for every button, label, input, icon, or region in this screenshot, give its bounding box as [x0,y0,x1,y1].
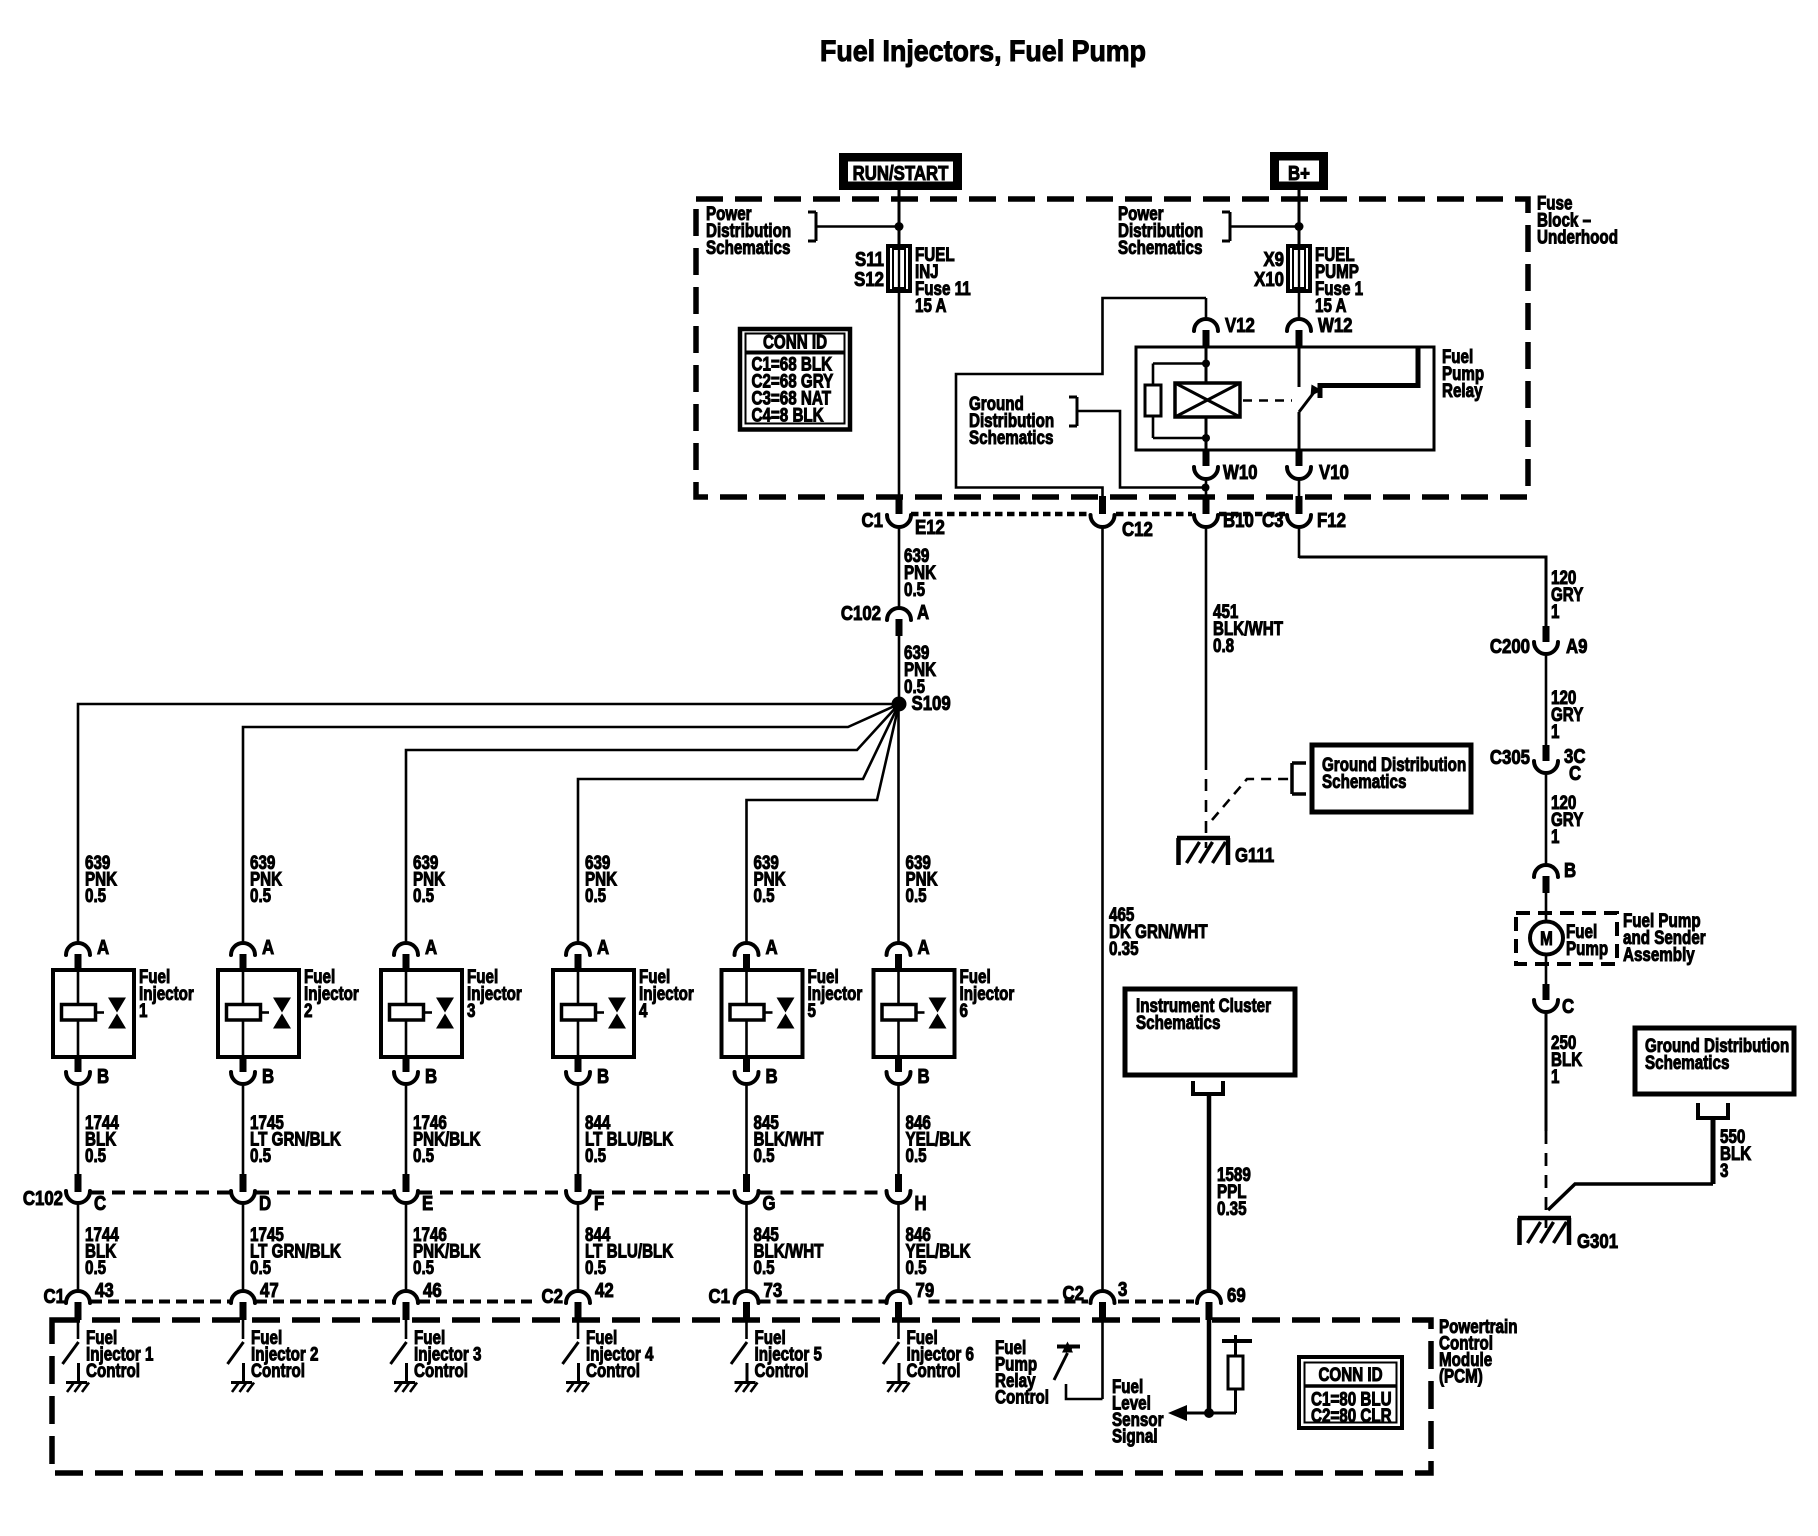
svg-text:(PCM): (PCM) [1439,1365,1483,1387]
wire 465 DK GRN/WHT C12 to PCM pin 3 [1101,527,1104,1292]
svg-text:G: G [763,1192,776,1215]
wire S109 fan to injector 3 [406,704,899,944]
svg-text:E: E [422,1192,433,1215]
svg-text:B: B [262,1065,274,1088]
svg-text:Control: Control [995,1386,1049,1408]
connector C3 F12 [1296,496,1303,514]
wire 550 BLK 3 to G301 [1711,1118,1716,1184]
wire dashed continuation to G111 [1205,758,1208,848]
svg-text:C1: C1 [709,1285,730,1308]
connector C1 E12 [898,291,901,497]
svg-text:46: 46 [423,1279,442,1302]
node junction at B10 wire [1202,484,1210,492]
svg-text:C2=80 CLR: C2=80 CLR [1311,1404,1392,1426]
svg-text:Schematics: Schematics [1136,1011,1220,1033]
svg-text:1: 1 [139,999,148,1021]
svg-text:42: 42 [595,1279,614,1302]
bracket below ground distribution box [1696,1103,1700,1118]
power feed box B+ [1274,156,1325,187]
wire PCM relay control C12 up to relay coil V12 [956,298,1206,500]
fuel injector 2 [218,970,299,1057]
fuel pump and sender assembly dashed box [1516,913,1617,964]
connector row dashed line PCM [91,1300,230,1304]
svg-text:0.5: 0.5 [906,884,927,906]
ground (fuel injector 1 control) [66,1381,87,1384]
svg-text:Schematics: Schematics [706,236,790,258]
powertrain control module dashed enclosure [52,1320,1431,1473]
svg-text:Assembly: Assembly [1623,943,1695,965]
connector V12 [1205,298,1208,320]
wire dashed continuation to G301 [1545,1131,1548,1228]
svg-text:A: A [766,936,778,959]
connector W10 [1203,450,1210,466]
svg-text:Control: Control [907,1359,961,1381]
wire 639 E12 to C102 [898,527,901,609]
svg-text:0.5: 0.5 [904,578,925,600]
svg-text:C305: C305 [1490,746,1530,769]
svg-text:C3: C3 [1262,509,1283,532]
svg-text:6: 6 [960,999,968,1021]
fuse 11 FUEL INJ 15A (S11/S12) [888,246,910,291]
connector row dashed line C102 [91,1191,230,1195]
wire 250 BLK to G301 [1545,1012,1548,1131]
svg-text:0.5: 0.5 [585,1144,606,1166]
svg-text:1: 1 [1551,720,1560,742]
svg-text:Schematics: Schematics [1645,1051,1729,1073]
svg-text:X10: X10 [1254,268,1284,291]
svg-text:A: A [597,936,609,959]
wire injector 3 control to C102 [405,1084,408,1175]
wire F12 to fuel pump feed [1298,527,1301,558]
svg-text:Fuel Injectors, Fuel Pump: Fuel Injectors, Fuel Pump [820,35,1146,68]
connector C102 pin F [575,1174,582,1192]
relay coil winding [1175,383,1240,417]
svg-text:Control: Control [414,1359,468,1381]
svg-text:Control: Control [586,1359,640,1381]
svg-text:B: B [425,1065,437,1088]
wire RUN/START to fuse 11 [898,190,901,246]
svg-text:G111: G111 [1235,844,1274,867]
wire S109 fan to injector 5 [747,704,900,944]
svg-text:0.5: 0.5 [413,1144,434,1166]
connector C102 pin C [75,1174,82,1192]
relay switch output contact path [1320,348,1418,398]
svg-text:A: A [97,936,109,959]
svg-text:0.35: 0.35 [1109,937,1139,959]
svg-text:0.5: 0.5 [413,1256,434,1278]
svg-text:0.5: 0.5 [906,1144,927,1166]
svg-text:0.5: 0.5 [906,1256,927,1278]
wire injector 1 control to C102 [77,1084,80,1175]
fuel injector 3 control driver in PCM [405,1320,408,1339]
fuel injector 6 control driver in PCM [897,1320,900,1339]
svg-text:0.5: 0.5 [250,884,271,906]
svg-text:C200: C200 [1490,635,1530,658]
ground (fuel injector 5 control) [735,1381,756,1384]
svg-text:3: 3 [467,999,475,1021]
Ground Distribution Schematics box (right) [1635,1028,1794,1094]
svg-text:C: C [1569,762,1581,785]
svg-text:0.5: 0.5 [250,1256,271,1278]
connector C200 A9 [1543,626,1550,642]
Instrument Cluster Schematics box [1125,989,1295,1075]
connector PCM pin 42 [566,1291,590,1303]
connector B injector 3 [403,1057,410,1072]
svg-text:G301: G301 [1577,1230,1618,1253]
wire S109 fan to injector 1 [78,704,899,944]
svg-text:3: 3 [1720,1159,1728,1181]
connector C (fuel pump ground) [1543,984,1550,1000]
svg-text:5: 5 [808,999,817,1021]
wire bracket to B+ feed [1230,225,1299,228]
bracket ground distribution reference (mid) [1290,763,1294,794]
pull-up resistor (fuel level sensor) [1234,1389,1237,1413]
bracket below instrument cluster box [1191,1081,1195,1094]
svg-text:C: C [94,1192,106,1215]
fuse block - underhood dashed enclosure [696,199,1528,497]
fuel pump relay control driver in PCM [1101,1320,1104,1399]
power feed box RUN/START [843,157,959,187]
svg-text:B: B [597,1065,609,1088]
ground G301 [1518,1216,1571,1221]
wire relay output to V10 [1298,412,1301,450]
fuel injector 3 [381,970,462,1057]
wire C102 G to PCM pin 73 [745,1203,748,1292]
wire C305 to fuel pump B [1545,773,1548,866]
fuel injector 5 control driver in PCM [745,1320,748,1339]
svg-text:S12: S12 [854,268,884,291]
connector W12 [1298,291,1301,320]
wire injector 6 control to C102 [897,1084,900,1175]
svg-text:W12: W12 [1318,314,1353,337]
wire B+ to fuse 1 [1298,190,1301,246]
connector B (fuel pump) [1534,865,1558,877]
svg-text:C2: C2 [542,1285,563,1308]
svg-text:M: M [1540,927,1553,949]
svg-text:D: D [259,1192,271,1215]
CONN ID table (fuse block) [740,329,850,430]
svg-text:43: 43 [95,1279,114,1302]
fuel injector 6 [874,970,955,1057]
svg-text:0.5: 0.5 [85,884,106,906]
svg-text:Schematics: Schematics [969,426,1053,448]
wire 451 BLK/WHT B10 toward G111 [1205,527,1208,758]
svg-text:B: B [97,1065,109,1088]
svg-text:B: B [918,1065,930,1088]
wire C102 D to PCM pin 47 [242,1203,245,1292]
connector C2 pin 3 (PCM) [1091,1291,1115,1303]
fuel pump motor [1530,922,1563,955]
fuel injector 4 control driver in PCM [577,1320,580,1339]
connector row dotted line (fuse block bottom) [911,512,1089,517]
wire fuel pump to connector C [1545,955,1548,985]
svg-text:E12: E12 [915,516,945,539]
connector A injector 4 [566,943,590,955]
svg-text:4: 4 [639,999,648,1021]
connector B injector 4 [575,1057,582,1072]
svg-text:Control: Control [755,1359,809,1381]
wire S109 down to injector 6 [897,704,900,944]
fuel level sensor signal network in PCM [1207,1320,1212,1413]
svg-text:C4=8 BLK: C4=8 BLK [752,404,825,426]
splice S109 [892,697,907,712]
svg-text:B: B [766,1065,778,1088]
svg-text:69: 69 [1227,1284,1246,1307]
bracket for right power distribution reference [1229,212,1232,241]
connector A injector 2 [231,943,255,955]
wire injector 2 control to C102 [242,1084,245,1175]
ground (fuel injector 2 control) [231,1381,252,1384]
svg-text:V12: V12 [1225,314,1255,337]
Ground Distribution Schematics box (mid) [1312,745,1471,812]
fuel injector 1 [53,970,134,1057]
svg-text:W10: W10 [1223,461,1258,484]
relay coil suppression resistor [1145,385,1161,416]
svg-text:F12: F12 [1317,509,1346,532]
wire C102 E to PCM pin 46 [405,1203,408,1292]
svg-text:CONN ID: CONN ID [1318,1363,1382,1385]
connector B injector 1 [75,1057,82,1072]
svg-text:Relay: Relay [1442,379,1483,401]
connector PCM pin 43 [66,1291,90,1303]
svg-text:0.5: 0.5 [250,1144,271,1166]
svg-text:0.5: 0.5 [754,1256,775,1278]
svg-text:C102: C102 [841,602,881,625]
fuse 1 FUEL PUMP 15A (X9/X10) [1288,246,1310,291]
connector A injector 6 [887,943,911,955]
relay actuation dashed link [1243,399,1292,402]
svg-text:A9: A9 [1566,635,1587,658]
svg-text:2: 2 [304,999,312,1021]
connector PCM pin 46 [394,1291,418,1303]
svg-text:C12: C12 [1122,518,1153,541]
node junction on RUN/START feed [895,222,904,231]
ground (fuel injector 3 control) [394,1381,415,1384]
fuel injector 1 control driver in PCM [77,1320,80,1339]
connector C102 pin G [743,1174,750,1192]
connector V10 [1296,450,1303,466]
svg-text:Control: Control [86,1359,140,1381]
svg-text:C1: C1 [862,509,883,532]
svg-text:0.5: 0.5 [85,1144,106,1166]
svg-text:RUN/START: RUN/START [853,162,949,185]
connector PCM pin 79 [887,1291,911,1303]
connector A injector 1 [66,943,90,955]
svg-text:A: A [918,936,930,959]
svg-text:A: A [917,601,929,624]
svg-text:1: 1 [1551,600,1560,622]
svg-text:H: H [915,1192,927,1215]
svg-text:0.8: 0.8 [1213,634,1234,656]
ground G111 [1177,836,1230,841]
node junction on B+ feed [1295,222,1304,231]
svg-text:C102: C102 [23,1187,63,1210]
svg-text:0.5: 0.5 [585,1256,606,1278]
svg-text:Underhood: Underhood [1537,226,1618,248]
svg-text:Pump: Pump [1566,937,1608,959]
connector A injector 3 [394,943,418,955]
svg-text:Control: Control [251,1359,305,1381]
wire 639 C102 to S109 [898,636,901,704]
CONN ID table (PCM) [1299,1357,1402,1428]
wire B into fuel pump [1545,893,1548,922]
wire dashed branch to ground distribution [1212,779,1291,820]
wire injector 5 control to C102 [745,1084,748,1175]
connector C102 pin E [403,1174,410,1192]
connector C305 3C/C [1543,745,1550,761]
svg-text:B10: B10 [1223,509,1254,532]
wire bracket to RUN/START feed [816,225,899,228]
bracket ground distribution reference [1076,397,1079,426]
svg-text:15 A: 15 A [915,294,947,316]
connector C102 A [887,608,911,620]
svg-text:Signal: Signal [1112,1425,1158,1447]
wire V10 to fuse block edge [1298,479,1301,497]
connector B injector 2 [240,1057,247,1072]
svg-text:F: F [594,1192,604,1215]
svg-text:C: C [1562,995,1574,1018]
svg-text:S109: S109 [912,692,951,715]
fuel pump relay box [1136,347,1434,450]
svg-text:0.5: 0.5 [85,1256,106,1278]
svg-text:V10: V10 [1319,461,1349,484]
svg-text:Schematics: Schematics [1322,770,1406,792]
connector C102 pin D [240,1174,247,1192]
wire W10 to fuse block edge [1205,479,1208,497]
ground (fuel injector 6 control) [887,1381,908,1384]
wire S109 fan to injector 4 [578,704,899,944]
svg-text:73: 73 [764,1279,783,1302]
fuel injector 5 [722,970,803,1057]
fuel injector 4 [553,970,634,1057]
svg-text:0.5: 0.5 [413,884,434,906]
wire C102 F to PCM pin 42 [577,1203,580,1292]
wire C102 C to PCM pin 43 [77,1203,80,1292]
ground (fuel injector 4 control) [566,1381,587,1384]
fuel injector 2 control driver in PCM [242,1320,245,1339]
svg-text:47: 47 [260,1279,279,1302]
svg-text:1: 1 [1551,825,1560,847]
wire C102 H to PCM pin 79 [897,1203,900,1292]
svg-text:A: A [262,936,274,959]
relay coil circuit [1205,346,1208,383]
svg-text:Schematics: Schematics [1118,236,1202,258]
svg-text:B+: B+ [1288,162,1310,185]
connector C102 pin H [895,1174,902,1192]
svg-text:C2: C2 [1063,1282,1084,1305]
svg-text:0.5: 0.5 [585,884,606,906]
relay switch blade [1299,391,1315,412]
svg-text:0.5: 0.5 [754,884,775,906]
svg-text:3: 3 [1118,1278,1127,1301]
connector PCM pin 73 [735,1291,759,1303]
connector B injector 5 [743,1057,750,1072]
svg-text:CONN ID: CONN ID [763,331,827,353]
svg-text:B: B [1564,859,1576,882]
wire ground distribution to B10 wire [1077,411,1204,488]
connector B injector 6 [895,1057,902,1072]
svg-text:0.5: 0.5 [754,1144,775,1166]
wire 1589 PPL instrument cluster to PCM pin 69 [1207,1094,1212,1292]
svg-text:C1: C1 [44,1285,65,1308]
connector A injector 5 [735,943,759,955]
connector C12 [1099,496,1106,514]
svg-text:A: A [425,936,437,959]
svg-text:79: 79 [916,1279,935,1302]
relay switch fixed contact from W12 [1298,346,1301,387]
wire S109 fan to injector 2 [243,704,899,944]
bracket for left power distribution reference [815,212,818,241]
connector PCM pin 47 [231,1291,255,1303]
svg-text:0.35: 0.35 [1217,1197,1247,1219]
connector pin 69 (PCM) [1197,1291,1221,1303]
svg-text:1: 1 [1551,1065,1560,1087]
wire injector 4 control to C102 [577,1084,580,1175]
wire C200 to C305 [1545,654,1548,746]
connector B10 [1203,496,1210,514]
